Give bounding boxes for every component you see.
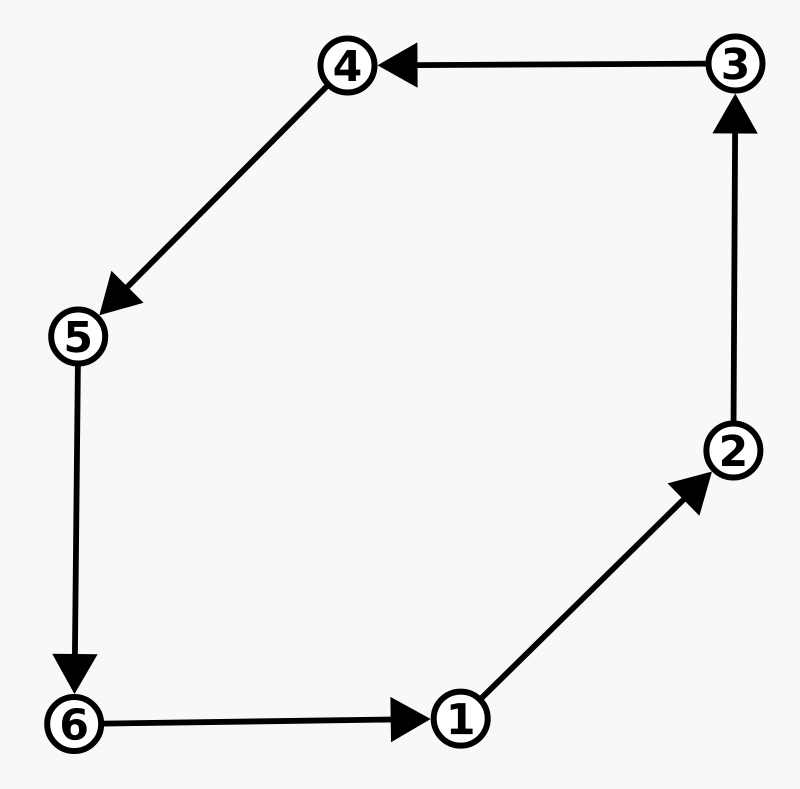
node 5 bbox=[51, 310, 105, 364]
node 6 bbox=[47, 697, 101, 751]
node 2 bbox=[706, 424, 760, 478]
node 4 bbox=[321, 39, 375, 93]
node 3 bbox=[709, 37, 763, 91]
edge 3->4 wire with arrowhead bbox=[378, 42, 736, 87]
edge 5->6 wire with arrowhead bbox=[52, 337, 97, 695]
edge 4->5 wire with arrowhead bbox=[99, 66, 347, 316]
edge 2->3 wire with arrowhead bbox=[712, 94, 757, 451]
node 1 bbox=[434, 692, 488, 746]
edge 6->1 wire with arrowhead bbox=[74, 697, 431, 742]
edge 1->2 wire with arrowhead bbox=[461, 472, 712, 719]
